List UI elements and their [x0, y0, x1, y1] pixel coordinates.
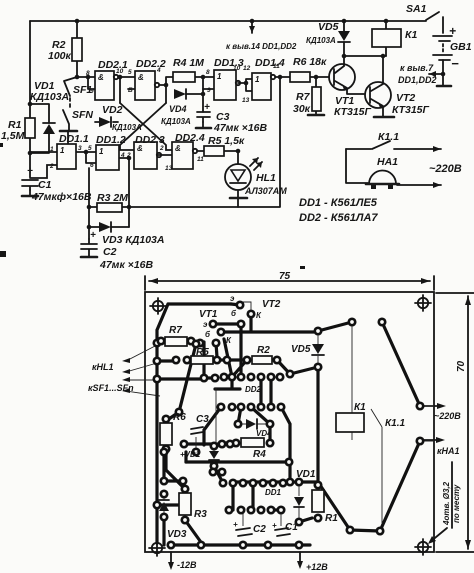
svg-text:VD4: VD4 [169, 104, 187, 114]
svg-text:2: 2 [159, 145, 164, 152]
svg-text:VD2: VD2 [102, 104, 123, 116]
svg-text:R6: R6 [173, 412, 186, 423]
svg-text:HL1: HL1 [256, 172, 276, 184]
svg-text:30к: 30к [293, 103, 311, 115]
svg-text:2: 2 [49, 163, 54, 170]
svg-text:9: 9 [207, 87, 211, 94]
svg-text:R6 18к: R6 18к [293, 56, 327, 68]
svg-text:к выв.14 DD1,DD2: к выв.14 DD1,DD2 [226, 42, 297, 51]
svg-text:1: 1 [255, 75, 260, 84]
svg-text:DD2.1: DD2.1 [98, 59, 128, 71]
svg-text:8: 8 [86, 70, 90, 77]
svg-text:+: + [449, 24, 456, 38]
svg-text:+: + [27, 166, 33, 177]
svg-text:R3 2М: R3 2М [97, 192, 128, 204]
svg-text:VD4: VD4 [256, 429, 272, 438]
svg-text:75: 75 [279, 271, 291, 282]
svg-text:SFN: SFN [72, 109, 93, 121]
svg-text:9: 9 [90, 88, 94, 95]
svg-text:&: & [175, 144, 181, 153]
svg-text:−: − [451, 56, 459, 71]
svg-text:С1: С1 [38, 179, 52, 191]
svg-text:R3: R3 [194, 509, 207, 520]
svg-text:КД103А: КД103А [161, 117, 191, 126]
svg-text:К1.1: К1.1 [385, 418, 405, 429]
svg-text:5: 5 [128, 69, 132, 76]
svg-text:С3: С3 [196, 414, 209, 425]
svg-text:1: 1 [217, 72, 222, 81]
svg-text:R2: R2 [257, 345, 270, 356]
svg-text:1: 1 [60, 146, 65, 155]
svg-text:R7: R7 [296, 91, 311, 103]
svg-text:5: 5 [88, 145, 92, 152]
svg-text:&: & [137, 144, 143, 153]
svg-text:47мк ×16В: 47мк ×16В [99, 259, 153, 271]
svg-text:КТ315Г: КТ315Г [334, 106, 372, 118]
svg-text:э: э [203, 320, 208, 329]
svg-text:13: 13 [242, 97, 250, 104]
svg-text:DD2.2: DD2.2 [136, 58, 166, 70]
svg-text:+: + [90, 230, 96, 241]
svg-text:DD1.4: DD1.4 [255, 57, 285, 69]
svg-text:VT2: VT2 [262, 299, 281, 310]
svg-text:13: 13 [165, 165, 173, 172]
svg-text:DD2.4: DD2.4 [175, 132, 205, 144]
svg-text:R7: R7 [169, 325, 182, 336]
svg-text:+: + [233, 520, 238, 529]
svg-text:кSF1...SFn: кSF1...SFn [88, 383, 134, 393]
svg-text:VT2: VT2 [396, 92, 415, 104]
svg-text:DD1.2: DD1.2 [96, 134, 126, 146]
svg-text:DD2: DD2 [245, 385, 262, 394]
svg-text:1: 1 [99, 147, 104, 156]
svg-text:DD2 - К561ЛА7: DD2 - К561ЛА7 [299, 212, 378, 224]
svg-text:2: 2 [126, 152, 131, 159]
svg-text:+VD2: +VD2 [180, 450, 201, 459]
svg-text:К1.1: К1.1 [378, 131, 399, 143]
svg-text:+: + [272, 521, 277, 530]
svg-text:47мкф×16В: 47мкф×16В [31, 191, 92, 203]
svg-text:К1: К1 [354, 402, 366, 413]
svg-text:VD3 КД103А: VD3 КД103А [102, 234, 164, 246]
svg-text:11: 11 [273, 63, 280, 70]
svg-text:DD1,DD2: DD1,DD2 [398, 75, 437, 85]
svg-text:8: 8 [206, 69, 210, 76]
svg-text:+12В: +12В [306, 562, 328, 572]
svg-text:VT1: VT1 [199, 309, 218, 320]
svg-text:КТ315Г: КТ315Г [392, 104, 430, 116]
svg-text:С2: С2 [103, 246, 117, 258]
svg-text:&: & [98, 73, 104, 82]
svg-text:С1: С1 [285, 522, 298, 533]
svg-text:1: 1 [50, 146, 54, 153]
svg-text:R5: R5 [196, 347, 209, 358]
svg-text:1,5М: 1,5М [1, 130, 25, 142]
svg-text:-12В: -12В [177, 560, 197, 570]
svg-text:кHL1: кHL1 [92, 362, 114, 372]
svg-text:к выв.7: к выв.7 [400, 63, 434, 73]
svg-text:VD5: VD5 [318, 21, 339, 33]
svg-text:Б: Б [128, 87, 133, 94]
svg-text:С2: С2 [253, 524, 266, 535]
svg-text:4отв. Ø3,2: 4отв. Ø3,2 [442, 481, 451, 526]
svg-text:R5 1,5к: R5 1,5к [208, 135, 245, 147]
svg-text:6: 6 [90, 162, 94, 169]
svg-text:&: & [138, 73, 144, 82]
svg-text:К1: К1 [405, 29, 417, 41]
svg-text:4: 4 [156, 67, 161, 74]
svg-text:КД103А: КД103А [306, 36, 336, 45]
svg-text:VD3: VD3 [167, 529, 187, 540]
svg-text:47мк ×16В: 47мк ×16В [213, 122, 267, 134]
svg-text:R4: R4 [253, 449, 266, 460]
svg-text:АЛ307АМ: АЛ307АМ [244, 186, 287, 196]
svg-text:+: + [204, 102, 210, 113]
svg-text:3: 3 [78, 145, 82, 152]
svg-text:DD1.1: DD1.1 [59, 133, 89, 145]
svg-text:по месту: по месту [452, 484, 461, 523]
svg-text:НА1: НА1 [377, 156, 398, 168]
svg-text:кНА1: кНА1 [437, 446, 460, 456]
svg-text:~220В: ~220В [434, 411, 461, 421]
svg-text:GB1: GB1 [450, 41, 472, 53]
svg-text:SA1: SA1 [406, 3, 427, 15]
svg-text:э: э [230, 294, 235, 303]
svg-text:КД103А: КД103А [30, 91, 69, 103]
svg-text:VD1: VD1 [296, 469, 316, 480]
svg-text:10: 10 [116, 68, 124, 75]
svg-text:100к: 100к [48, 50, 72, 62]
svg-text:КД103А: КД103А [112, 123, 142, 132]
svg-text:R1: R1 [325, 513, 338, 524]
svg-text:DD1: DD1 [265, 488, 282, 497]
svg-text:70: 70 [456, 360, 467, 372]
svg-text:DD1 - К561ЛЕ5: DD1 - К561ЛЕ5 [299, 197, 378, 209]
svg-text:11: 11 [197, 156, 204, 163]
svg-text:VD5: VD5 [291, 344, 311, 355]
svg-text:R4 1М: R4 1М [173, 57, 204, 69]
svg-text:12: 12 [243, 65, 251, 72]
svg-text:~220В: ~220В [429, 163, 462, 175]
svg-text:10: 10 [233, 65, 241, 72]
svg-text:4: 4 [120, 152, 125, 159]
